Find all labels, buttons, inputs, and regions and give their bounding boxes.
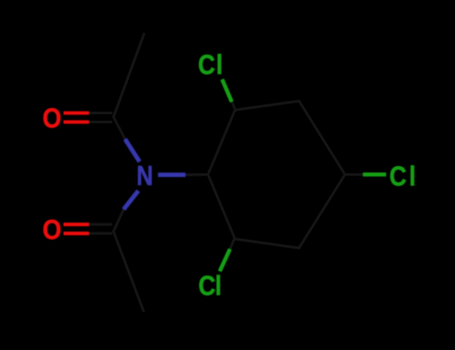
svg-text:l: l [409, 160, 416, 192]
svg-text:C: C [198, 269, 215, 301]
svg-text:l: l [216, 48, 223, 80]
svg-text:N: N [137, 161, 154, 192]
svg-text:C: C [389, 160, 406, 192]
svg-text:C: C [198, 48, 215, 80]
svg-text:l: l [215, 269, 222, 301]
svg-text:O: O [43, 213, 62, 245]
svg-text:O: O [43, 102, 62, 134]
